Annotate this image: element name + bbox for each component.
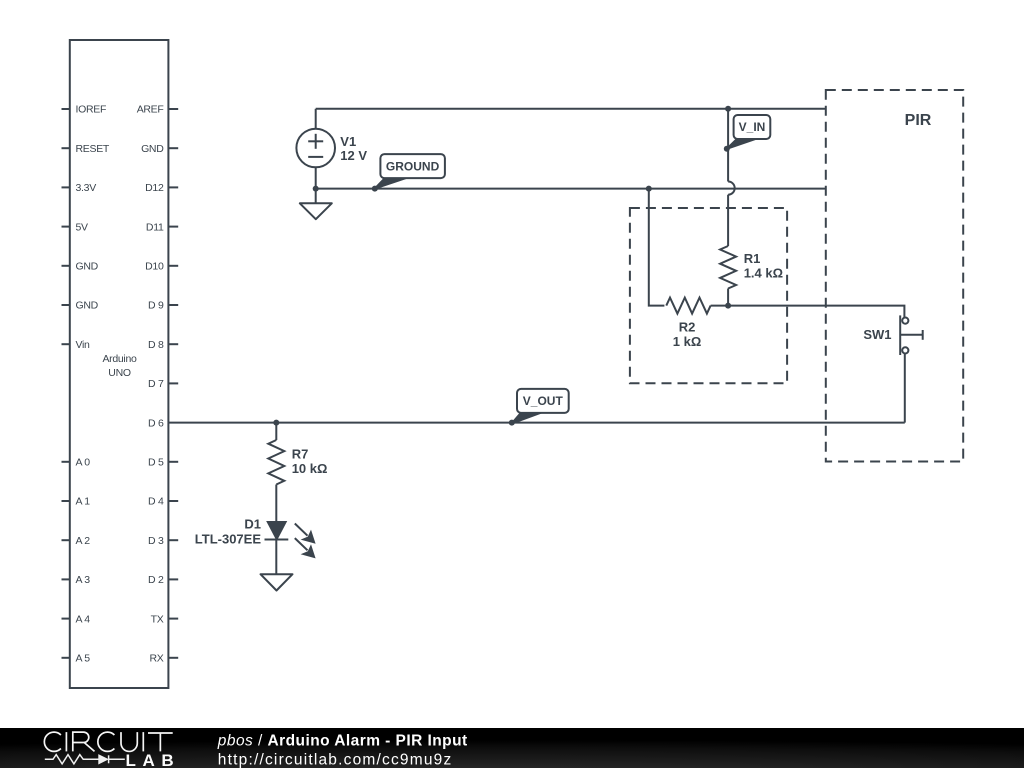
svg-text:Arduino: Arduino — [102, 353, 137, 365]
svg-text:R2: R2 — [679, 320, 696, 335]
svg-text:A 2: A 2 — [76, 535, 91, 547]
pin RX (right) — [150, 653, 179, 665]
junction dot V_OUT tag tip — [509, 420, 515, 426]
svg-text:D 2: D 2 — [148, 574, 164, 586]
pin A 4 (left) — [62, 613, 91, 625]
svg-text:RX: RX — [150, 653, 164, 665]
pin D 6 — [148, 417, 164, 429]
svg-text:IOREF: IOREF — [76, 104, 107, 116]
pin GND (right) — [141, 143, 178, 155]
svg-text:A 4: A 4 — [76, 613, 91, 625]
svg-text:UNO: UNO — [108, 367, 131, 379]
net flag V_IN — [727, 115, 771, 149]
resistor R2 — [666, 298, 710, 314]
junction dot V_IN tag tip — [724, 146, 730, 152]
svg-text:http://circuitlab.com/cc9mu9z: http://circuitlab.com/cc9mu9z — [218, 751, 453, 768]
wire R2 right lead — [711, 305, 729, 307]
svg-text:A 1: A 1 — [76, 496, 91, 508]
pin A 1 (left) — [62, 496, 91, 508]
resistor R1 — [720, 246, 736, 289]
junction dot R2 branch — [646, 186, 652, 192]
R1 label and value 1.4 kOhm — [744, 251, 783, 281]
svg-text:R1: R1 — [744, 251, 761, 266]
svg-text:1 kΩ: 1 kΩ — [673, 334, 702, 349]
D1 label and part number — [195, 517, 262, 547]
svg-text:D10: D10 — [145, 261, 164, 273]
voltage source V1 — [296, 109, 335, 189]
junction dot GROUND tag tip — [372, 186, 378, 192]
pin D 2 (right) — [148, 574, 178, 586]
svg-text:V1: V1 — [340, 134, 356, 149]
pin RESET (left) — [62, 143, 110, 155]
pin D 3 (right) — [148, 535, 178, 547]
svg-text:A 0: A 0 — [76, 457, 91, 469]
logo resistor-diode glyph — [45, 755, 125, 764]
wire top net V_IN (V1 plus to PIR box) — [316, 108, 826, 110]
pin GND (left) — [62, 300, 99, 312]
junction dot R7 branch on D6 net — [273, 420, 279, 426]
svg-text:D 6: D 6 — [148, 417, 164, 429]
wire V_IN vertical (top wire down to R1) with hop over ground net — [728, 109, 735, 246]
svg-text:R7: R7 — [292, 446, 309, 461]
ground symbol (below V1) — [300, 189, 332, 220]
svg-text:10 kΩ: 10 kΩ — [292, 461, 328, 476]
svg-text:V_OUT: V_OUT — [523, 394, 564, 408]
pin IOREF (left) — [62, 104, 107, 116]
pin AREF (right) — [137, 104, 179, 116]
pin GND (left) — [62, 261, 99, 273]
wire ground net (V1 minus to PIR box) — [316, 188, 826, 190]
footer bar — [0, 728, 1024, 768]
pin 3.3V (left) — [62, 182, 97, 194]
net flag V_OUT — [512, 389, 569, 424]
pin D 5 (right) — [148, 457, 178, 469]
svg-text:SW1: SW1 — [863, 327, 891, 342]
svg-text:D1: D1 — [244, 517, 261, 532]
svg-text:D 5: D 5 — [148, 457, 164, 469]
svg-text:12 V: 12 V — [340, 148, 367, 163]
wire D6 net (horizontal, pin D6 to switch) — [168, 422, 904, 424]
wire LED to ground — [275, 540, 277, 575]
junction dot R1/R2 — [725, 303, 731, 309]
resistor R7 — [268, 440, 284, 485]
pin A 5 (left) — [62, 653, 91, 665]
svg-text:D 4: D 4 — [148, 496, 164, 508]
pin TX (right) — [151, 613, 179, 625]
pin D 8 (right) — [148, 339, 178, 351]
svg-text:Vin: Vin — [76, 339, 91, 351]
switch SW1 (pushbutton) — [900, 315, 923, 355]
svg-text:5V: 5V — [76, 221, 89, 233]
wire R2 branch (junction on ground net down and to R2) — [649, 189, 665, 306]
svg-text:GND: GND — [141, 143, 164, 155]
wire R7 to LED — [275, 485, 277, 522]
wire R7 top lead — [275, 423, 277, 440]
pin D10 (right) — [145, 261, 178, 273]
svg-text:3.3V: 3.3V — [76, 182, 97, 194]
svg-text:LAB: LAB — [126, 751, 181, 768]
svg-text:D11: D11 — [146, 221, 164, 233]
svg-text:GND: GND — [76, 261, 99, 273]
pin D 9 (right) — [148, 300, 178, 312]
wire switch bottom vertical — [904, 353, 906, 422]
svg-text:RESET: RESET — [76, 143, 110, 155]
junction dot V1 minus — [313, 186, 319, 192]
pin D12 (right) — [145, 182, 178, 194]
svg-text:D 7: D 7 — [148, 378, 164, 390]
footer title text — [217, 733, 468, 768]
V1 label and value 12 V — [340, 134, 367, 163]
svg-text:AREF: AREF — [137, 104, 164, 116]
pin D 7 (right) — [148, 378, 178, 390]
svg-text:1.4 kΩ: 1.4 kΩ — [744, 266, 783, 281]
ground symbol (below D1) — [261, 574, 293, 590]
pin D11 (right) — [146, 221, 178, 233]
wire R1/R2 node to switch SW1 — [728, 306, 904, 318]
pin A 2 (left) — [62, 535, 91, 547]
wire R1 bottom lead — [727, 289, 729, 306]
svg-text:A 5: A 5 — [76, 653, 91, 665]
svg-text:pbos / Arduino Alarm - PIR Inp: pbos / Arduino Alarm - PIR Input — [217, 733, 468, 750]
pin D 4 (right) — [148, 496, 178, 508]
svg-text:D 8: D 8 — [148, 339, 164, 351]
Arduino UNO name label — [102, 353, 137, 379]
svg-text:PIR: PIR — [905, 112, 932, 129]
svg-text:LTL-307EE: LTL-307EE — [195, 532, 262, 547]
pin A 0 (left) — [62, 457, 91, 469]
svg-text:GND: GND — [76, 300, 99, 312]
svg-text:TX: TX — [151, 613, 164, 625]
pin 5V (left) — [62, 221, 89, 233]
junction dot top wire / V_IN vertical — [725, 106, 731, 112]
Arduino UNO module box — [70, 40, 169, 688]
svg-text:GROUND: GROUND — [386, 159, 440, 173]
R7 label and value 10 kOhm — [292, 446, 328, 475]
LED D1 — [265, 522, 316, 559]
PIR enclosure (dashed) — [826, 90, 963, 462]
svg-text:D12: D12 — [145, 182, 164, 194]
net flag GROUND — [375, 154, 445, 189]
CircuitLab logo "CIRCUIT" (drawn letters) — [44, 732, 172, 751]
svg-text:D 9: D 9 — [148, 300, 164, 312]
R2 label and value 1 kOhm — [673, 320, 702, 350]
svg-text:D 3: D 3 — [148, 535, 164, 547]
R1/R2 enclosure (dashed) — [630, 208, 787, 383]
pin A 3 (left) — [62, 574, 91, 586]
pin Vin (left) — [62, 339, 91, 351]
svg-text:A 3: A 3 — [76, 574, 91, 586]
svg-text:V_IN: V_IN — [739, 120, 766, 134]
